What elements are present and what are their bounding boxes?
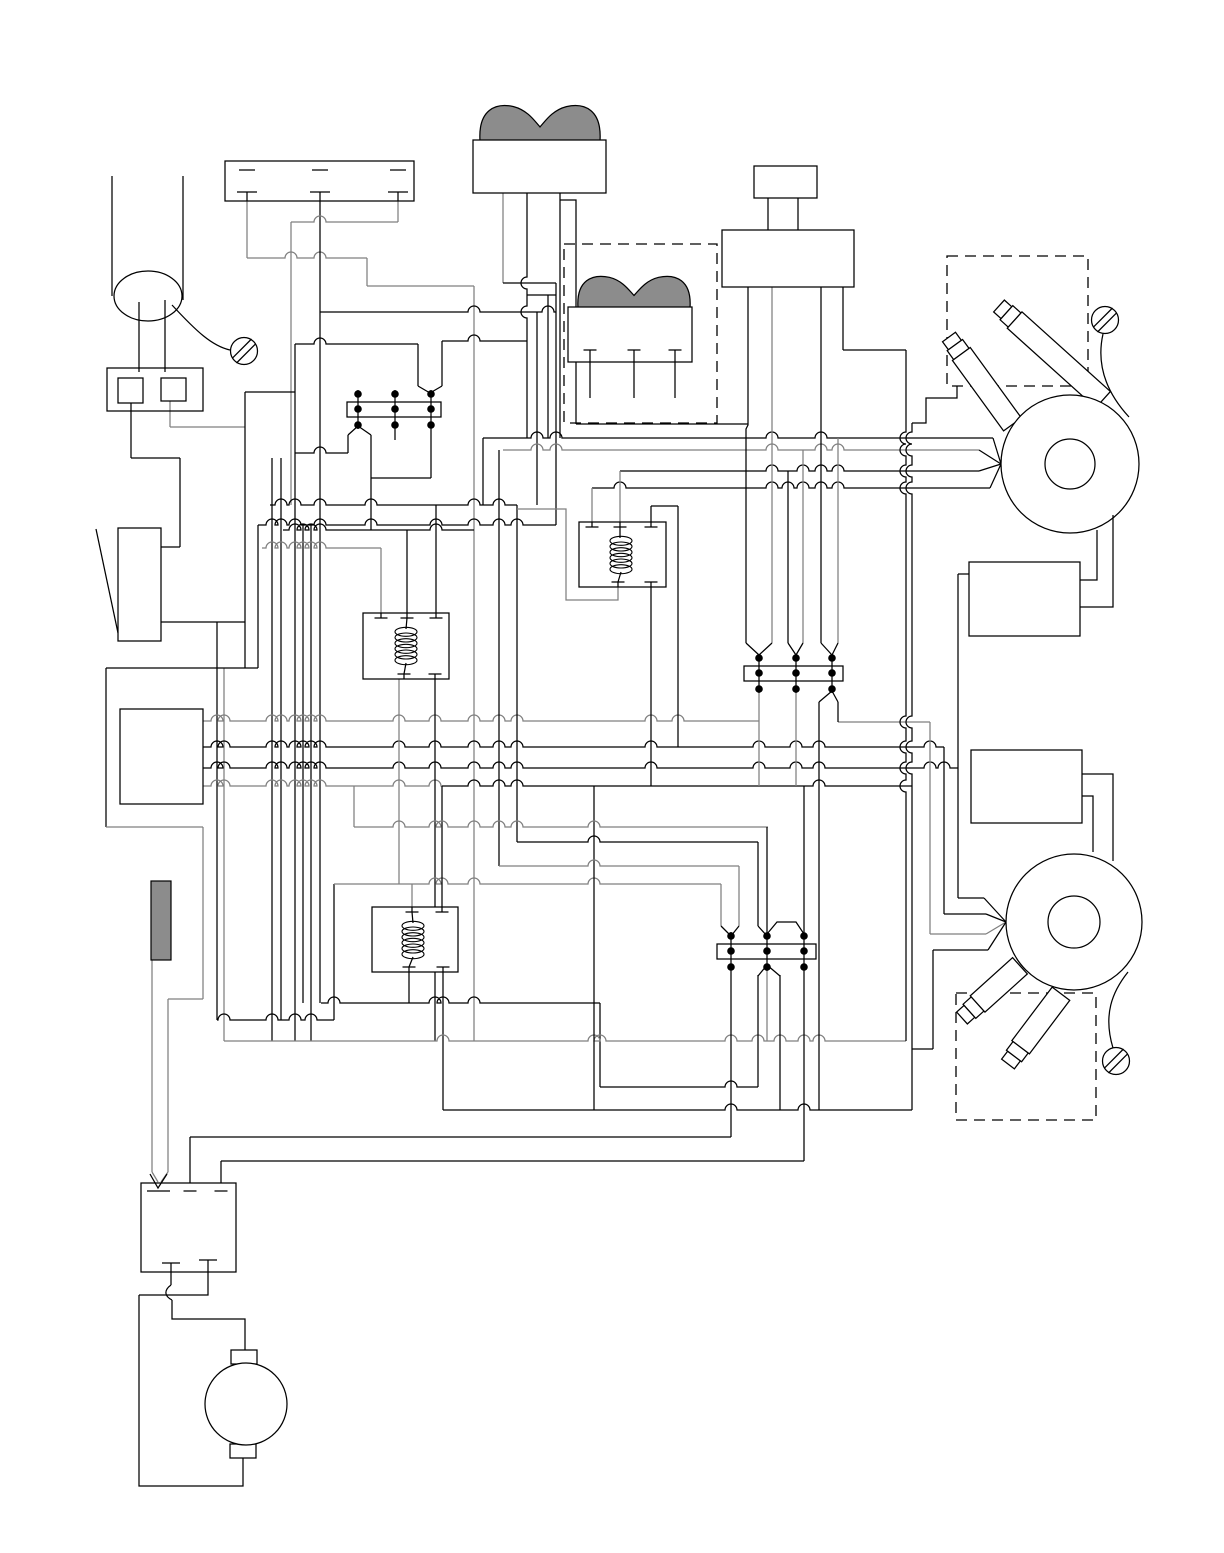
wire	[837, 702, 839, 722]
wire	[161, 546, 180, 548]
wire	[347, 435, 349, 453]
wire	[593, 786, 595, 1110]
wire	[979, 450, 1001, 464]
wire	[576, 423, 748, 425]
wire	[270, 499, 517, 505]
wire	[943, 747, 945, 914]
flywheel magneto G1	[1001, 395, 1139, 533]
relay K3	[372, 907, 458, 972]
wire	[758, 693, 760, 786]
wire	[406, 530, 408, 613]
wire	[170, 1272, 172, 1285]
wire	[503, 444, 979, 450]
wire	[152, 1172, 158, 1182]
CDI unit U3	[971, 750, 1082, 823]
starter solenoid K4	[141, 1183, 236, 1272]
wire	[900, 350, 906, 1041]
wire	[838, 721, 930, 723]
kill switch S2	[578, 276, 690, 308]
wire	[559, 200, 561, 438]
wire	[600, 1081, 758, 1087]
wire	[651, 505, 678, 507]
main fuse F2	[151, 881, 171, 960]
wire	[906, 423, 912, 1110]
wire	[984, 898, 1006, 922]
wire	[161, 1172, 168, 1182]
wire	[139, 1272, 208, 1295]
flasher relay FL1	[118, 528, 161, 641]
wire	[224, 1035, 906, 1041]
CDI unit U2	[969, 562, 1080, 636]
wire	[295, 447, 348, 453]
wire	[820, 287, 822, 643]
wire	[182, 176, 184, 300]
wire	[190, 1136, 731, 1138]
wire	[164, 300, 166, 372]
wire	[502, 193, 504, 283]
wire	[370, 435, 372, 530]
wire	[417, 344, 419, 386]
spark plug enclosure 2 (dashed)	[956, 993, 1096, 1120]
wire	[262, 542, 381, 548]
wire	[912, 386, 957, 423]
wire	[441, 341, 443, 386]
ignition switch S1	[480, 106, 600, 141]
battery BAT1	[225, 161, 414, 201]
wire	[443, 1104, 912, 1110]
wire	[111, 176, 113, 296]
wire	[354, 821, 768, 827]
wire	[280, 458, 282, 1020]
connector J3	[717, 944, 816, 959]
wire	[295, 338, 418, 344]
wire	[203, 780, 442, 786]
wire	[803, 786, 805, 932]
wire	[172, 305, 230, 350]
spark plug P2	[992, 298, 1111, 408]
wire	[283, 524, 474, 530]
wire	[933, 949, 988, 951]
wire	[353, 786, 355, 827]
wire	[620, 465, 979, 471]
connector J2	[744, 666, 843, 681]
wire	[592, 482, 990, 488]
wire	[442, 780, 912, 786]
wire	[802, 450, 804, 643]
wire	[521, 193, 527, 438]
wire	[958, 573, 969, 575]
wire	[547, 295, 549, 438]
wire	[245, 391, 295, 393]
wire	[932, 950, 934, 1049]
wire	[247, 252, 367, 258]
wire	[408, 972, 410, 1003]
wire	[517, 836, 758, 842]
wire	[720, 884, 722, 926]
wire	[246, 201, 248, 258]
spark plug P4	[999, 987, 1070, 1071]
wire	[442, 972, 444, 1110]
recoil cord 1	[1101, 334, 1129, 417]
wire	[442, 335, 527, 341]
wire	[434, 679, 436, 1041]
wire	[527, 294, 556, 296]
wire	[986, 922, 1006, 934]
wire	[167, 999, 169, 1172]
wire	[139, 1295, 243, 1486]
wire	[795, 693, 797, 786]
wire	[258, 519, 556, 525]
wire	[216, 668, 218, 1020]
wire	[398, 679, 400, 884]
wire	[591, 488, 593, 522]
wire	[990, 464, 1001, 488]
horn H1	[114, 271, 182, 321]
wire	[319, 312, 321, 1003]
wire	[929, 722, 931, 934]
wire	[988, 922, 1006, 950]
wire	[516, 505, 518, 842]
wire	[517, 509, 618, 600]
wire	[271, 458, 273, 1041]
wire	[560, 200, 576, 424]
wire	[650, 587, 652, 786]
wire	[380, 548, 382, 613]
wire	[257, 525, 259, 668]
wire	[169, 401, 171, 427]
spark plug P3	[955, 958, 1028, 1027]
starter motor M1	[231, 1350, 257, 1364]
wire	[619, 471, 621, 522]
wire	[818, 702, 820, 1110]
kill switch enclosure (dashed)	[564, 244, 717, 423]
wire	[555, 283, 557, 525]
magneto pull screw 1	[1092, 307, 1119, 334]
wire	[179, 458, 181, 547]
wire	[244, 392, 246, 668]
wire	[843, 349, 906, 351]
wire	[371, 477, 431, 479]
wire	[503, 282, 556, 284]
connector J1	[347, 402, 441, 417]
horn adjust screw	[231, 338, 258, 365]
wire	[411, 884, 413, 907]
wire	[106, 667, 258, 669]
wire	[394, 429, 396, 440]
wire	[536, 312, 538, 505]
wire	[320, 306, 556, 312]
wire	[986, 914, 1006, 922]
wire	[170, 426, 245, 428]
wire	[367, 285, 474, 287]
wire	[223, 668, 225, 1041]
wire	[766, 827, 768, 932]
wire	[172, 1300, 245, 1350]
wire	[483, 432, 993, 438]
magneto pull screw 2	[1103, 1048, 1130, 1075]
wire	[499, 860, 739, 866]
wire	[559, 193, 561, 200]
wire	[166, 1285, 172, 1300]
wire	[441, 786, 443, 907]
wire	[333, 884, 335, 1020]
wire	[161, 621, 245, 623]
wire	[397, 201, 399, 222]
wire	[366, 258, 368, 286]
wire	[106, 826, 203, 828]
wire	[151, 960, 153, 1172]
wire	[757, 975, 759, 1087]
wire	[435, 505, 437, 613]
wire	[979, 464, 1001, 471]
wire	[105, 668, 107, 827]
wire	[202, 827, 204, 999]
wire	[294, 344, 296, 1041]
wire	[310, 525, 312, 1041]
wire	[203, 715, 759, 721]
wire	[221, 1160, 804, 1162]
wire	[216, 622, 218, 668]
wire	[746, 287, 748, 643]
wire	[803, 971, 805, 1161]
wire	[957, 574, 959, 898]
recoil cord 2	[1109, 972, 1128, 1048]
wire	[302, 525, 304, 1003]
wire	[837, 438, 839, 643]
wire	[430, 429, 432, 478]
wire	[944, 913, 986, 915]
wire	[677, 506, 679, 747]
wire	[787, 471, 789, 643]
wire	[498, 450, 500, 866]
wire	[958, 897, 984, 899]
wire	[930, 933, 986, 935]
wire	[842, 287, 844, 350]
wire	[189, 1137, 191, 1183]
wire	[599, 1003, 601, 1087]
wire	[473, 286, 475, 1041]
ignition coil T1	[754, 166, 817, 198]
wire	[766, 971, 768, 1041]
wire	[738, 866, 740, 926]
wire	[334, 878, 721, 884]
wire	[217, 1014, 334, 1020]
regulator U1	[120, 709, 203, 804]
wire	[130, 403, 132, 458]
wire	[203, 741, 944, 747]
wire	[771, 287, 773, 643]
fuse box F1	[107, 368, 203, 411]
wire	[757, 842, 759, 926]
wire	[203, 762, 958, 768]
wire	[779, 975, 781, 1110]
spark plug P1	[940, 331, 1021, 431]
wire	[220, 1161, 222, 1183]
wire	[482, 438, 484, 505]
wire	[912, 1048, 933, 1050]
wire	[138, 302, 140, 372]
wire	[168, 998, 203, 1000]
relay K2	[363, 613, 449, 679]
relay K1	[579, 522, 666, 587]
wire	[650, 506, 652, 522]
wire	[730, 971, 732, 1137]
wire	[321, 997, 600, 1003]
wire	[290, 222, 292, 505]
spark plug enclosure 1 (dashed)	[947, 256, 1088, 386]
wire	[993, 438, 1001, 464]
wire	[291, 216, 398, 222]
flywheel magneto G2	[1006, 854, 1142, 990]
wire	[131, 457, 180, 459]
wire	[319, 201, 321, 312]
